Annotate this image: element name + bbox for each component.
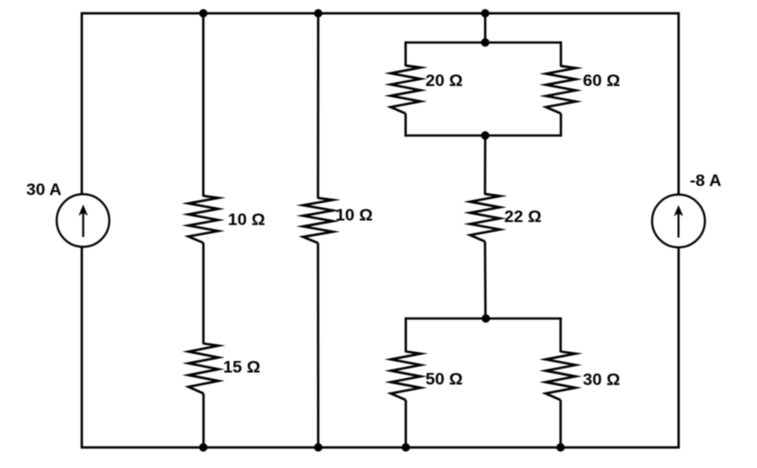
wire box1 right lead bottom xyxy=(560,114,562,137)
wire branch2 bottom (R2 to bottom rail) xyxy=(202,394,204,448)
junction node F dot (bottom rail, branch2) xyxy=(199,443,207,451)
junction node G dot (bottom rail, branch3) xyxy=(314,443,322,451)
junction node C2 dot (box1 top) xyxy=(481,38,489,46)
svg-text:60 Ω: 60 Ω xyxy=(583,71,620,90)
svg-text:10 Ω: 10 Ω xyxy=(336,206,373,225)
wire node C stub (top rail to parallel box) xyxy=(484,13,486,42)
junction node C dot (top rail) xyxy=(481,9,489,17)
wire box2 left lead bottom xyxy=(405,400,407,447)
resistor R8 30 ohm xyxy=(546,352,576,401)
wire box1 left lead bottom xyxy=(404,114,406,137)
svg-text:22 Ω: 22 Ω xyxy=(504,207,541,226)
wire box2 right lead bottom xyxy=(559,400,561,447)
wire box2 left lead top xyxy=(405,317,407,352)
junction node A dot xyxy=(199,9,207,17)
wire branch3 top (node B to R3) xyxy=(317,13,320,198)
wire branch3 bottom (R3 to bottom rail) xyxy=(317,243,320,447)
wire R6 to box2 (node E) xyxy=(484,242,487,319)
svg-text:30 Ω: 30 Ω xyxy=(583,370,620,389)
resistor R4 20 ohm xyxy=(391,66,421,114)
svg-text:-8 A: -8 A xyxy=(690,171,722,190)
wire box2 right lead top xyxy=(559,317,561,352)
svg-text:10 Ω: 10 Ω xyxy=(228,210,265,229)
current source I2 arrow xyxy=(678,212,680,238)
wire branch2 top (node A to R1) xyxy=(202,13,204,196)
junction node E dot (box2 top) xyxy=(482,314,490,322)
resistor R5 60 ohm xyxy=(546,66,576,114)
junction node I dot (bottom rail, box2 right) xyxy=(556,443,564,451)
current source I2 -8A (circle) xyxy=(652,195,705,248)
junction node D dot (box1 bottom) xyxy=(481,131,489,139)
wire parallel box1 top edge xyxy=(405,41,563,43)
svg-text:30 A: 30 A xyxy=(26,180,61,199)
resistor R3 10 ohm xyxy=(303,198,333,243)
wire box1 left lead top xyxy=(404,41,406,66)
resistor R6 22 ohm xyxy=(470,194,500,242)
wire parallel box2 top edge xyxy=(405,317,562,319)
junction node H dot (bottom rail, box2 left) xyxy=(402,443,410,451)
resistor R1 10 ohm xyxy=(188,196,218,243)
junction node B dot xyxy=(314,9,322,17)
current source I1 30A (circle) xyxy=(57,194,110,247)
wire node D stub (box1 bottom to R6) xyxy=(484,136,487,195)
resistor R2 15 ohm xyxy=(189,344,219,394)
resistor R7 50 ohm xyxy=(391,352,421,401)
wire branch2 middle (R1 to R2) xyxy=(202,243,204,344)
svg-text:20 Ω: 20 Ω xyxy=(426,71,463,90)
svg-text:15 Ω: 15 Ω xyxy=(223,358,260,377)
current source I1 arrow xyxy=(82,211,84,237)
wire outer loop (top rail, left wire, right wire, bottom rail) xyxy=(82,13,679,447)
svg-text:50 Ω: 50 Ω xyxy=(426,370,463,389)
wire box1 right lead top xyxy=(560,41,562,66)
wire parallel box1 bottom edge xyxy=(405,134,563,136)
